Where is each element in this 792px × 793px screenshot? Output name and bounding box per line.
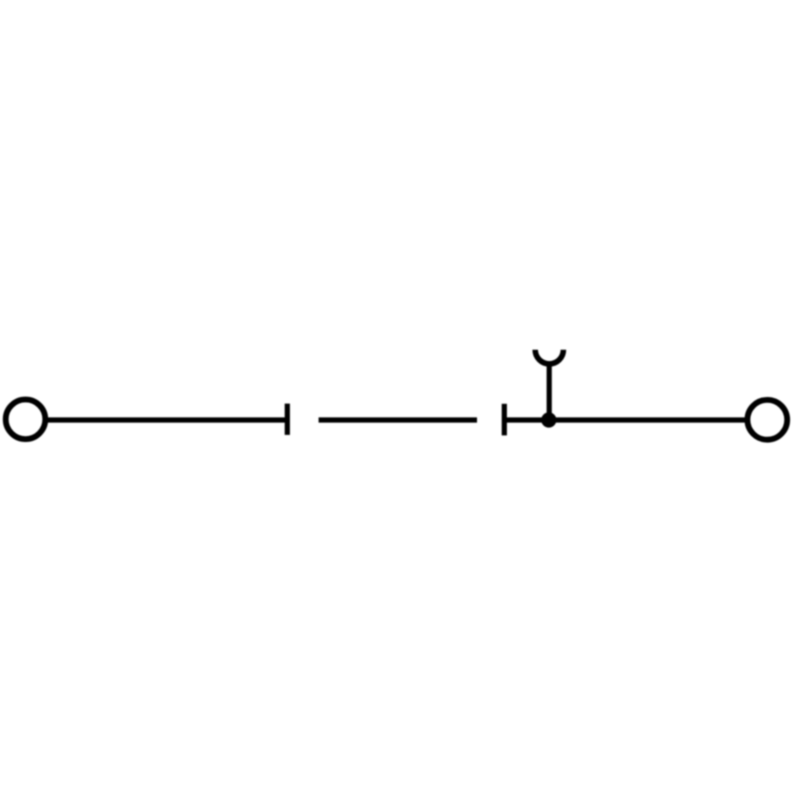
wire stem of test socket — [547, 363, 552, 421]
junction node dot — [541, 412, 556, 427]
terminal circle right (clamp point 2) — [747, 400, 787, 440]
disconnect link wire (middle removable segment) — [319, 417, 477, 422]
wire from disconnect through node to right terminal — [504, 417, 747, 422]
disconnect contact tick left — [285, 404, 290, 435]
disconnect contact tick right — [502, 404, 507, 436]
wire from left terminal to disconnect — [46, 417, 288, 422]
test socket cup symbol — [535, 350, 563, 364]
terminal circle left (clamp point 1) — [6, 400, 46, 440]
